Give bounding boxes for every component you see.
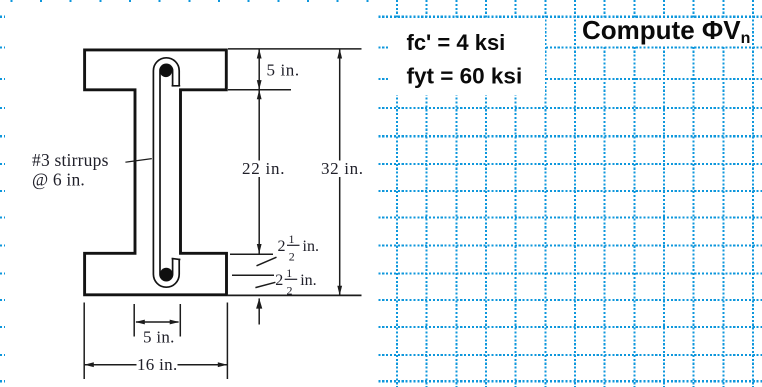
- svg-text:2: 2: [275, 272, 283, 289]
- ext line top flange top: [228, 48, 362, 50]
- arrowheads: [84, 49, 342, 367]
- svg-text:5 in.: 5 in.: [143, 328, 175, 347]
- arrowhead 22in lower: [257, 244, 262, 254]
- svg-text:fyt = 60 ksi: fyt = 60 ksi: [407, 64, 523, 89]
- arrowhead 16in left: [84, 362, 94, 367]
- value label 2-1/2 in. (second, bar to soffit): [275, 266, 316, 298]
- white box behind material notes: [389, 18, 546, 95]
- longitudinal bar dot (bottom): [160, 268, 173, 281]
- horizontal ref line at bar level: [232, 274, 274, 276]
- leader 2.5 first: [257, 257, 277, 266]
- arrowhead 5in-bottom right: [170, 320, 180, 325]
- dim 5in bottom: [136, 321, 179, 323]
- arrowhead 22in upper: [257, 90, 262, 100]
- dim line 32in: [339, 49, 341, 296]
- arrowhead 32in lower: [337, 286, 342, 296]
- arrowhead 16in right: [218, 362, 228, 367]
- stirrup hairpin outer outline: [157, 61, 176, 284]
- value label 22 in. (web height): [241, 161, 287, 178]
- stirrup top end cap: [172, 85, 181, 87]
- svg-text:1: 1: [289, 232, 295, 246]
- svg-text:32 in.: 32 in.: [321, 159, 364, 178]
- arrowhead 32in upper: [337, 49, 342, 59]
- flange ext left: [83, 303, 85, 380]
- stirrup bottom end cap: [172, 258, 181, 259]
- I-beam cross-section outline: [85, 50, 227, 295]
- leader 2.5 second: [255, 282, 275, 287]
- ext line top flange bottom: [228, 89, 291, 91]
- svg-text:Compute ΦVn: Compute ΦVn: [582, 15, 750, 47]
- dim 16in: [84, 364, 227, 366]
- dim line 22in: [258, 90, 260, 254]
- arrowhead 5in-top upper: [257, 49, 262, 59]
- stirrup hairpin inner white: [157, 61, 176, 284]
- flange ext right: [226, 303, 228, 380]
- leader line to stirrup: [125, 159, 151, 163]
- longitudinal bar dot (top): [160, 65, 173, 78]
- up arrow line below flange: [258, 298, 260, 324]
- value label 2-1/2 in. (first, cover to bar): [278, 232, 319, 264]
- svg-text:2: 2: [289, 250, 295, 264]
- ext line bottom flange top: [230, 253, 273, 255]
- svg-text:in.: in.: [300, 272, 316, 289]
- arrowhead 5in-top lower: [257, 80, 262, 90]
- arrowhead 5in-bottom left: [135, 320, 145, 325]
- svg-text:1: 1: [286, 266, 292, 280]
- svg-text:2: 2: [278, 238, 286, 255]
- web ext left: [133, 304, 135, 337]
- web ext right: [179, 304, 181, 337]
- svg-text:2: 2: [287, 284, 293, 298]
- svg-text:@ 6 in.: @ 6 in.: [32, 170, 85, 190]
- svg-text:16 in.: 16 in.: [137, 355, 178, 374]
- arrowhead up-arrow below flange: [256, 298, 262, 308]
- svg-text:in.: in.: [303, 238, 319, 255]
- ext line bottom flange bottom: [228, 294, 362, 296]
- white box behind title: [577, 18, 746, 46]
- value label 32 in. (overall depth): [318, 161, 363, 178]
- svg-text:5 in.: 5 in.: [267, 61, 300, 80]
- svg-text:22 in.: 22 in.: [242, 159, 285, 178]
- dim line 5in top: [258, 49, 260, 90]
- svg-text:#3 stirrups: #3 stirrups: [32, 150, 109, 170]
- value label 16 in. (flange width): [137, 357, 178, 373]
- white panel under beam drawing: [5, 3, 378, 387]
- svg-text:fc' = 4 ksi: fc' = 4 ksi: [407, 30, 506, 55]
